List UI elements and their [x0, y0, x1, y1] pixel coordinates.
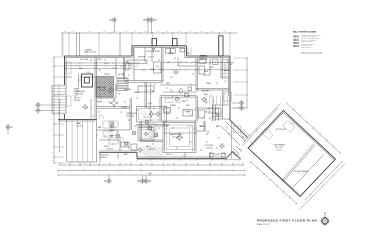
- svg-text:9'-6: 9'-6: [51, 71, 53, 73]
- svg-text:BED 4: BED 4: [200, 126, 205, 128]
- svg-text:HALL: HALL: [204, 93, 208, 96]
- svg-text:12'-4: 12'-4: [114, 31, 117, 33]
- svg-text:14'-6: 14'-6: [173, 169, 176, 171]
- svg-text:18-0 x 22-4: 18-0 x 22-4: [126, 115, 134, 117]
- svg-text:12-0x12-0: 12-0x12-0: [148, 148, 155, 150]
- svg-text:PROPOSED FIRST FLOOR PLAN: PROPOSED FIRST FLOOR PLAN: [257, 219, 317, 223]
- svg-text:10-0: 10-0: [98, 70, 101, 72]
- svg-text:9'-6: 9'-6: [51, 152, 53, 154]
- svg-text:11'-2: 11'-2: [64, 163, 67, 165]
- svg-text:12'-4: 12'-4: [103, 31, 106, 33]
- svg-text:COVRD: COVRD: [201, 56, 206, 58]
- svg-text:4 CAR GARAGE: 4 CAR GARAGE: [273, 144, 285, 147]
- svg-text:CLG BM: CLG BM: [121, 107, 128, 109]
- svg-text:CL: CL: [153, 108, 155, 110]
- svg-text:PWDR: PWDR: [206, 83, 212, 85]
- svg-text:PATIO: PATIO: [124, 153, 129, 156]
- svg-text:UP: UP: [230, 64, 232, 66]
- svg-text:BUTLER: BUTLER: [118, 74, 125, 76]
- svg-text:12-6x14-2: 12-6x14-2: [99, 89, 106, 91]
- svg-text:12-0 CLG: 12-0 CLG: [76, 125, 84, 127]
- svg-text:12-0: 12-0: [87, 72, 90, 74]
- svg-text:TUB: TUB: [166, 113, 169, 115]
- svg-text:All dimensions to face of stud: All dimensions to face of stud U.N.O.: [301, 51, 323, 54]
- svg-text:LIN: LIN: [209, 118, 211, 120]
- svg-text:12-0 CLG: 12-0 CLG: [143, 117, 150, 119]
- svg-text:13-4 x: 13-4 x: [74, 93, 78, 95]
- svg-text:OUTDOOR LIVING: OUTDOOR LIVING: [146, 51, 161, 53]
- svg-text:9'-6: 9'-6: [51, 129, 53, 131]
- svg-text:12'-4: 12'-4: [212, 31, 215, 33]
- svg-text:9'-6: 9'-6: [51, 61, 53, 63]
- svg-text:9'-6: 9'-6: [51, 100, 53, 102]
- svg-text:STOR: STOR: [104, 63, 109, 65]
- svg-text:12'-4: 12'-4: [223, 31, 226, 33]
- svg-text:12'-4: 12'-4: [64, 31, 67, 33]
- svg-text:LAUND: LAUND: [168, 52, 174, 55]
- svg-text:HEARTH RM: HEARTH RM: [97, 86, 107, 89]
- svg-text:BED 3: BED 3: [146, 146, 151, 148]
- svg-text:11'-2: 11'-2: [215, 163, 218, 165]
- svg-text:DINING: DINING: [74, 89, 80, 91]
- svg-text:11'-2: 11'-2: [124, 163, 127, 165]
- svg-text:COVERED: COVERED: [84, 50, 93, 52]
- svg-text:VEST: VEST: [166, 83, 170, 85]
- svg-text:STUDY: STUDY: [104, 146, 110, 148]
- svg-text:12'-4: 12'-4: [125, 31, 128, 33]
- svg-text:LANAI: LANAI: [76, 122, 81, 125]
- svg-text:12'-4: 12'-4: [190, 31, 193, 33]
- svg-text:MOTOR COURT: MOTOR COURT: [276, 129, 286, 131]
- svg-text:11'-2: 11'-2: [237, 163, 240, 165]
- svg-text:14'-0 x 11'-0: 14'-0 x 11'-0: [298, 173, 305, 175]
- svg-text:11'-2: 11'-2: [103, 163, 106, 165]
- svg-text:9'-6: 9'-6: [51, 119, 53, 121]
- svg-text:CL: CL: [216, 83, 218, 85]
- svg-text:12'-4: 12'-4: [166, 31, 169, 33]
- svg-text:ROOM: ROOM: [74, 91, 79, 93]
- svg-text:CL: CL: [209, 111, 211, 113]
- svg-text:9'-6: 9'-6: [51, 81, 53, 83]
- svg-text:KITCHEN: KITCHEN: [138, 57, 146, 59]
- svg-text:M.BATH: M.BATH: [170, 104, 177, 107]
- svg-text:MUD: MUD: [186, 53, 190, 55]
- svg-text:12-0 CLG: 12-0 CLG: [206, 147, 213, 149]
- svg-text:12-0 CLG: 12-0 CLG: [74, 98, 81, 100]
- svg-text:BFLR: BFLR: [98, 59, 103, 61]
- svg-text:12'-4: 12'-4: [88, 31, 91, 33]
- svg-text:12-0 x 34-0: 12-0 x 34-0: [80, 59, 88, 61]
- svg-text:STEPS DN: STEPS DN: [100, 157, 107, 159]
- svg-text:12-0x13-0: 12-0x13-0: [106, 148, 113, 150]
- svg-text:CL: CL: [128, 75, 130, 77]
- svg-text:ISLAND: ISLAND: [134, 91, 140, 94]
- svg-text:STOR: STOR: [290, 123, 294, 125]
- svg-text:12'-0 CLG: 12'-0 CLG: [276, 149, 282, 151]
- svg-text:11'-2: 11'-2: [191, 163, 194, 165]
- svg-text:GOLF CART GARAGE: GOLF CART GARAGE: [294, 170, 308, 173]
- svg-text:W.I.C.: W.I.C.: [186, 105, 191, 107]
- svg-text:11'-2: 11'-2: [84, 163, 87, 165]
- svg-text:12'-4: 12'-4: [178, 31, 181, 33]
- svg-text:9'-0 CLG: 9'-0 CLG: [148, 57, 155, 59]
- svg-text:10-0 CLG: 10-0 CLG: [166, 154, 173, 156]
- svg-text:36'-0 x 24'-0: 36'-0 x 24'-0: [275, 147, 283, 149]
- svg-text:PORCH: PORCH: [214, 154, 221, 156]
- svg-text:12'-4: 12'-4: [200, 31, 203, 33]
- svg-text:BATH 3: BATH 3: [216, 125, 222, 128]
- svg-text:11'-2: 11'-2: [145, 163, 148, 165]
- svg-text:14'-6: 14'-6: [83, 169, 86, 171]
- svg-text:12'-4: 12'-4: [156, 31, 159, 33]
- svg-text:SCALE: 1/4" = 1'-0": SCALE: 1/4" = 1'-0": [257, 223, 271, 226]
- svg-text:WD FLR: WD FLR: [74, 100, 81, 102]
- svg-text:A5: A5: [11, 126, 13, 129]
- svg-text:LIN: LIN: [205, 102, 207, 104]
- svg-text:9'-6: 9'-6: [51, 109, 53, 111]
- svg-text:14'-6: 14'-6: [129, 169, 132, 171]
- svg-text:MASTER BDRM: MASTER BDRM: [170, 133, 182, 136]
- svg-text:9'-6: 9'-6: [51, 160, 53, 162]
- svg-text:11'-2: 11'-2: [167, 163, 170, 165]
- svg-text:9'-6: 9'-6: [51, 90, 53, 92]
- svg-text:12'-4: 12'-4: [145, 31, 148, 33]
- svg-text:86'-10: 86'-10: [148, 173, 152, 175]
- svg-text:FOYER: FOYER: [104, 74, 110, 76]
- svg-text:W.I.C. 2: W.I.C. 2: [216, 115, 222, 117]
- svg-text:BAR: BAR: [98, 126, 102, 129]
- svg-text:CL2: CL2: [170, 77, 173, 79]
- svg-text:PWD: PWD: [210, 67, 214, 69]
- svg-text:BATH: BATH: [204, 70, 209, 73]
- svg-text:WOOD DECK: WOOD DECK: [100, 155, 109, 157]
- svg-text:STEP: STEP: [239, 149, 242, 151]
- svg-text:SHWR: SHWR: [186, 111, 191, 113]
- svg-text:14'-6: 14'-6: [220, 169, 223, 171]
- svg-text:DN: DN: [152, 91, 154, 93]
- svg-text:12-8: 12-8: [74, 95, 77, 97]
- svg-text:16-0 x 18-6: 16-0 x 18-6: [172, 137, 180, 139]
- svg-text:COV PORCH: COV PORCH: [204, 145, 213, 147]
- svg-text:MBA: MBA: [182, 100, 185, 103]
- svg-text:WALL / PARTITION LEGEND: WALL / PARTITION LEGEND: [293, 30, 317, 33]
- svg-text:12'-4: 12'-4: [71, 31, 74, 33]
- svg-text:ENTRY: ENTRY: [97, 102, 103, 104]
- svg-text:UP: UP: [225, 81, 227, 83]
- svg-text:PDR: PDR: [148, 103, 152, 105]
- svg-text:12'-4: 12'-4: [135, 31, 138, 33]
- svg-text:9'-6: 9'-6: [51, 141, 53, 143]
